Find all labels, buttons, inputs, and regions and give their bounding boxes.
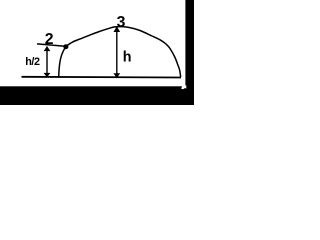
baseline — [22, 76, 182, 79]
arc (dome curve) — [59, 27, 181, 77]
arrow h head bottom — [113, 73, 120, 78]
arrow h/2 shaft — [46, 48, 48, 75]
arrow h/2 head top — [44, 46, 51, 51]
dot on arc — [63, 44, 68, 49]
pointer line from label 2 to dot — [37, 44, 65, 46]
svg-text:h/2: h/2 — [25, 56, 40, 68]
arrow h head top — [114, 26, 121, 32]
black band bottom — [0, 86, 194, 105]
arrow h/2 head bottom — [44, 73, 51, 78]
black band right — [185, 0, 194, 105]
arrow h shaft — [116, 28, 118, 75]
white notch artifact — [181, 85, 186, 89]
svg-text:h: h — [123, 49, 132, 65]
svg-text:2: 2 — [45, 31, 54, 48]
